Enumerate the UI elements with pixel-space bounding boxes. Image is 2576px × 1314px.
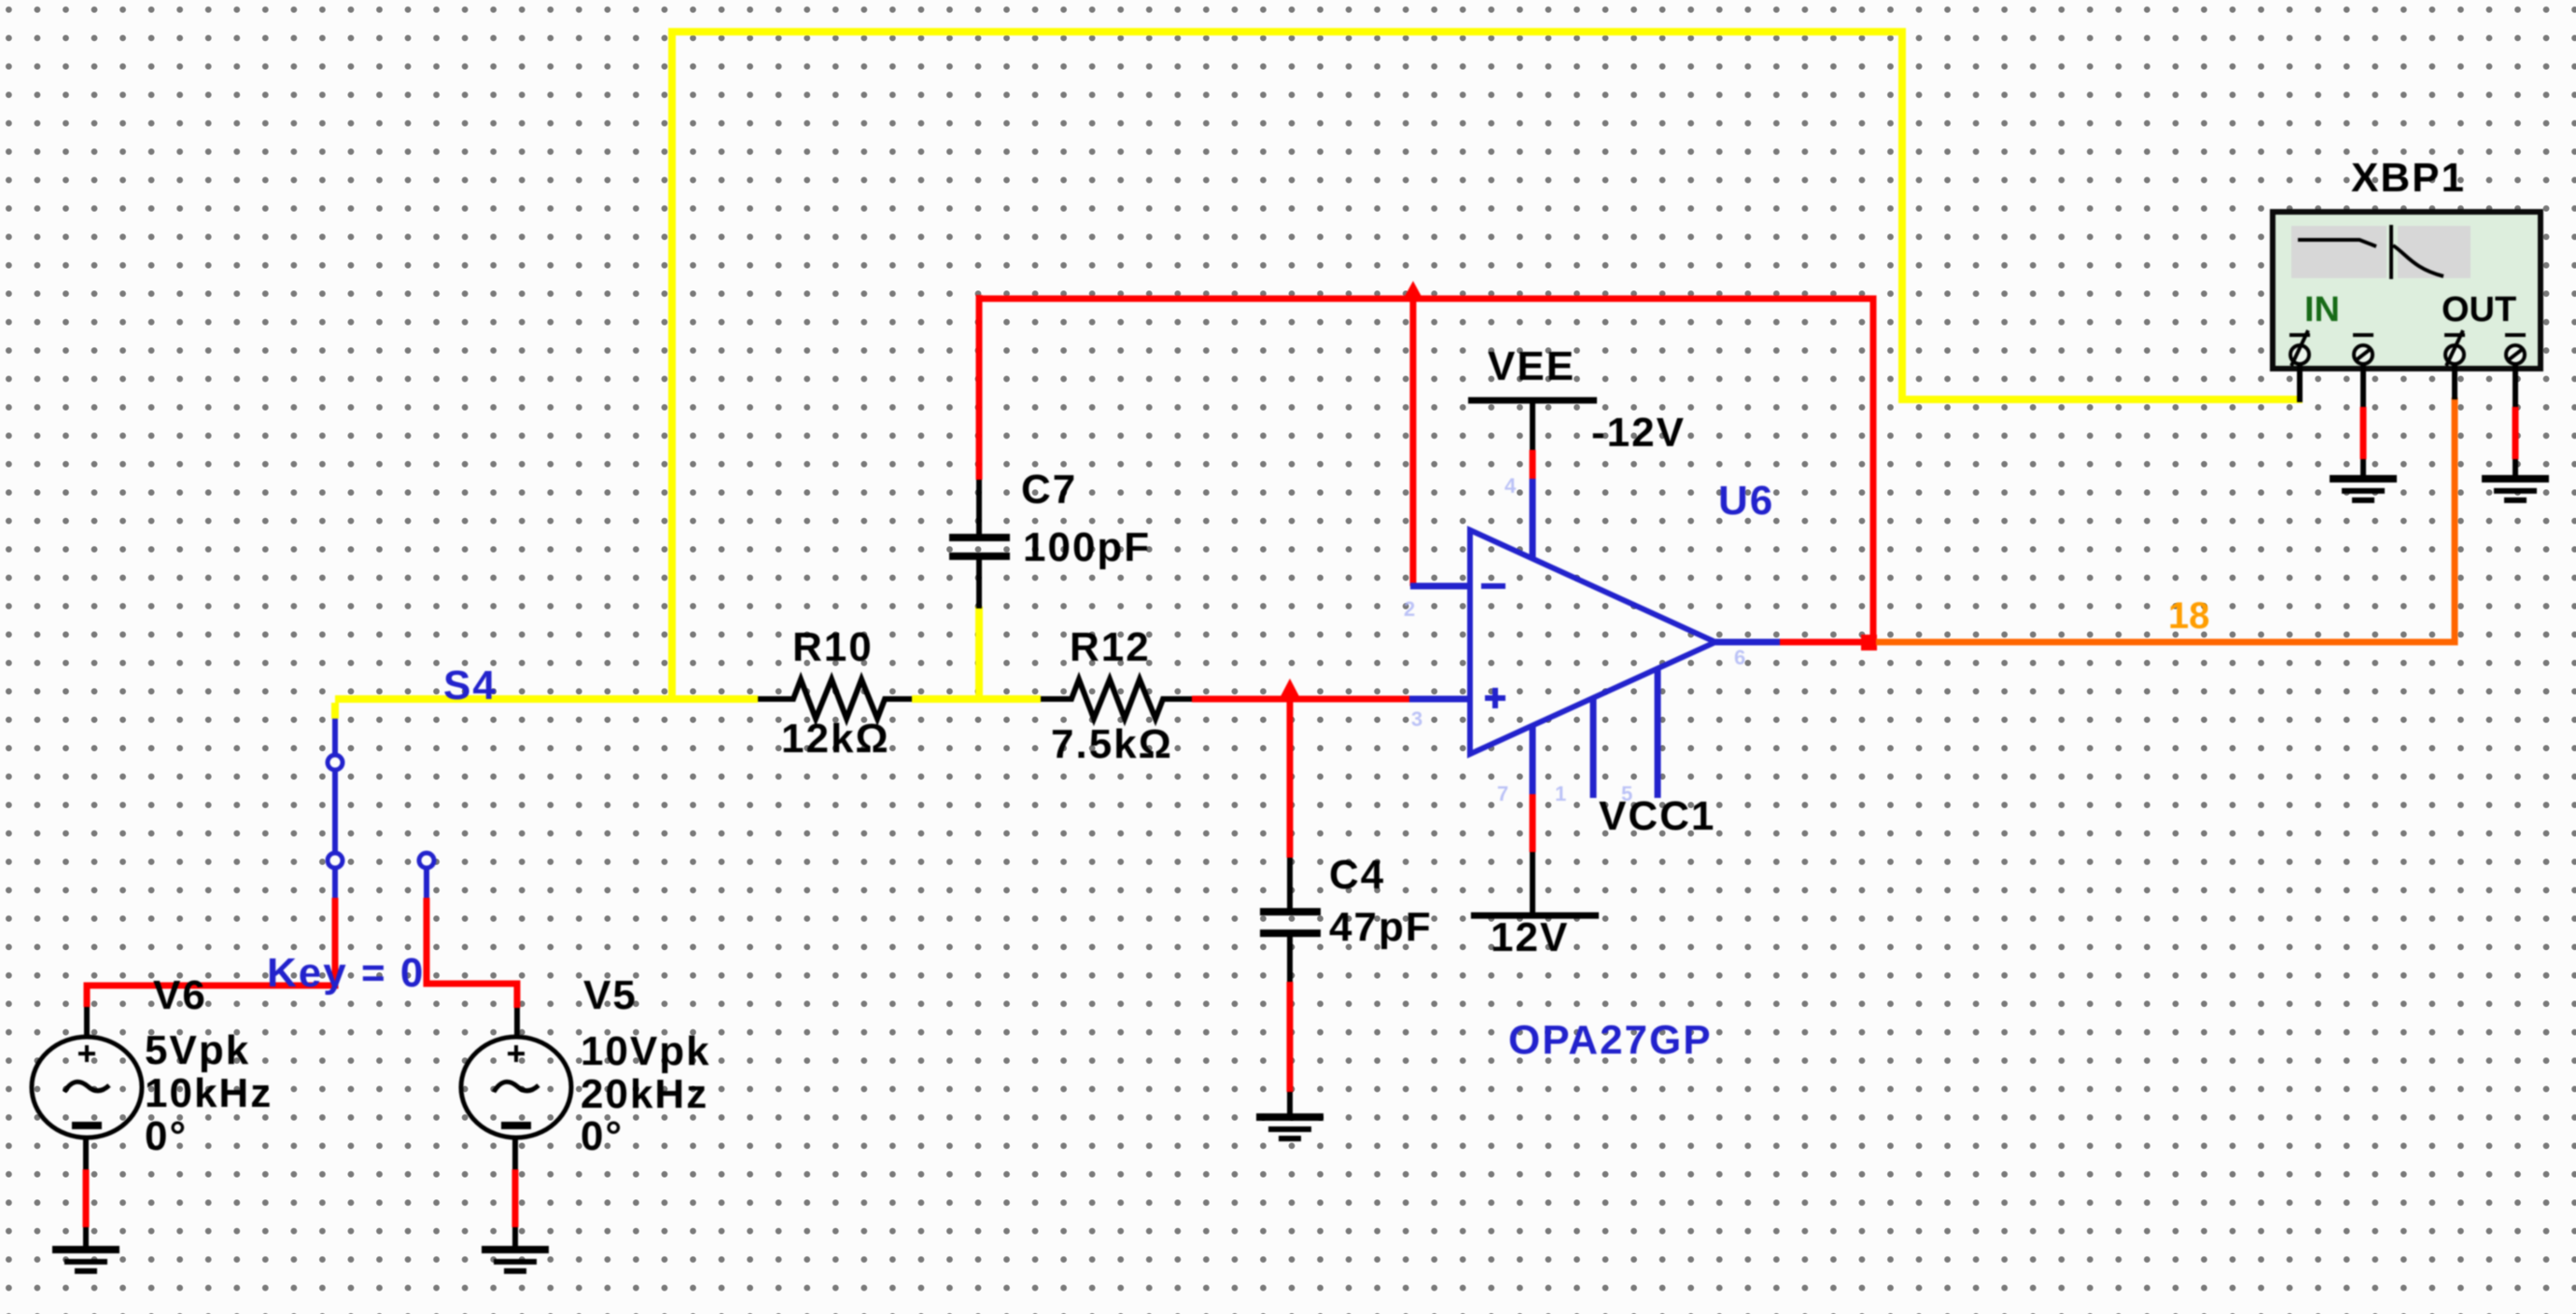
svg-text:20kHz: 20kHz bbox=[581, 1071, 708, 1117]
wire red IN- ground lead bbox=[2360, 407, 2367, 459]
VCC rail bar bbox=[1471, 913, 1599, 919]
wire black IN- stub bbox=[2360, 363, 2366, 407]
Bode plotter screen right bbox=[2398, 226, 2471, 278]
svg-text:OUT: OUT bbox=[2442, 290, 2516, 329]
wire black V6 top lead bbox=[84, 1007, 90, 1039]
wire yellow C7 bottom drop bbox=[975, 607, 983, 702]
wire yellow between R10 and R12 bbox=[912, 695, 1041, 703]
switch S4 throw contact A bbox=[328, 853, 343, 868]
source V6 sine wave bbox=[64, 1082, 109, 1092]
wire red throw A to V6 net bbox=[87, 898, 335, 1007]
switch S4 pole blue bbox=[332, 719, 338, 755]
op-amp VEE pin black bbox=[1530, 400, 1535, 450]
svg-text:R12: R12 bbox=[1070, 624, 1151, 670]
ground below C4 bbox=[1256, 1113, 1323, 1141]
svg-text:VEE: VEE bbox=[1488, 343, 1575, 389]
wire black IN+ stub bbox=[2297, 363, 2303, 402]
svg-text:C7: C7 bbox=[1021, 467, 1077, 512]
source V5 sine wave bbox=[494, 1082, 539, 1092]
Bode plotter icon curve bbox=[2298, 225, 2443, 279]
svg-text:3: 3 bbox=[1411, 707, 1422, 731]
wire blue below throw B bbox=[424, 868, 429, 898]
resistor R12 bbox=[1041, 679, 1192, 719]
ground below IN- bbox=[2330, 475, 2397, 503]
switch S4 blade bbox=[332, 770, 338, 853]
wire black V5 top lead bbox=[514, 1008, 520, 1039]
svg-text:VCC1: VCC1 bbox=[1599, 793, 1715, 839]
wire yellow branch up and across top to Bode plotter IN bbox=[672, 32, 2303, 699]
svg-text:C4: C4 bbox=[1329, 852, 1385, 898]
wire black to C4 ground bbox=[1287, 1092, 1293, 1116]
op-amp VCC pin black bbox=[1530, 852, 1535, 916]
wire black V5 bottom lead bbox=[512, 1139, 518, 1169]
junction arrow at top feedback bbox=[1402, 281, 1424, 301]
svg-text:U6: U6 bbox=[1718, 478, 1774, 524]
Bode plotter XBP1 body bbox=[2273, 212, 2541, 369]
XBP1 terminal IN+ bbox=[2289, 330, 2310, 366]
switch S4 pole contact bbox=[328, 755, 343, 770]
svg-text:2: 2 bbox=[1404, 597, 1415, 621]
wire yellow main segment S4 to R10 bbox=[335, 695, 758, 703]
svg-text:5Vpk: 5Vpk bbox=[145, 1027, 250, 1073]
source V6 minus bar bbox=[72, 1122, 102, 1129]
resistor R10 bbox=[758, 679, 912, 719]
wire red V5 to ground bbox=[512, 1169, 519, 1227]
svg-text:12kΩ: 12kΩ bbox=[781, 716, 890, 762]
junction square at output node bbox=[1861, 635, 1877, 650]
wire black IN- ground lead2 bbox=[2360, 459, 2366, 477]
op-amp VEE pin red bbox=[1530, 450, 1536, 479]
svg-text:S4: S4 bbox=[443, 663, 497, 708]
ground below V5 bbox=[482, 1246, 549, 1274]
svg-text:0°: 0° bbox=[145, 1113, 188, 1159]
svg-text:7.5kΩ: 7.5kΩ bbox=[1051, 721, 1173, 767]
XBP1 terminal IN- bbox=[2353, 335, 2373, 364]
wire red feedback top loop bbox=[979, 299, 1873, 642]
svg-text:6: 6 bbox=[1734, 646, 1745, 669]
svg-text:47pF: 47pF bbox=[1329, 904, 1433, 950]
wire red OUT- ground lead bbox=[2513, 407, 2519, 459]
XBP1 terminal OUT+ bbox=[2444, 330, 2465, 366]
switch S4 pole yellow bbox=[331, 703, 339, 719]
switch S4 throw contact B bbox=[419, 853, 434, 868]
svg-text:1: 1 bbox=[1555, 782, 1566, 805]
wire black OUT+ stub bbox=[2452, 363, 2457, 399]
source V5 minus bar bbox=[501, 1122, 531, 1129]
wire black OUT- ground lead2 bbox=[2513, 459, 2518, 477]
wire red throw B to V5 net bbox=[427, 898, 517, 1008]
op-amp offset null stub 1 bbox=[1590, 698, 1597, 798]
svg-text:12V: 12V bbox=[1491, 915, 1569, 960]
wire blue op-amp output stub bbox=[1715, 639, 1780, 646]
capacitor C4 bbox=[1260, 858, 1321, 982]
wire red below C4 bbox=[1287, 982, 1294, 1092]
wire black OUT- stub bbox=[2513, 363, 2518, 407]
source V5 plus sign bbox=[508, 1045, 525, 1062]
source V5 circle bbox=[461, 1037, 571, 1138]
Bode plotter screen left bbox=[2291, 226, 2387, 278]
wire orange output net 18 bbox=[1876, 398, 2455, 642]
ground below V6 bbox=[52, 1246, 119, 1274]
svg-text:18: 18 bbox=[2168, 595, 2210, 636]
svg-text:0°: 0° bbox=[581, 1113, 623, 1159]
wire red output to junction bbox=[1780, 639, 1870, 646]
wire red R12 to op-amp bbox=[1192, 696, 1412, 703]
svg-text:100pF: 100pF bbox=[1023, 524, 1151, 570]
svg-text:-12V: -12V bbox=[1591, 410, 1686, 455]
svg-text:7: 7 bbox=[1497, 782, 1508, 805]
wire blue below throw A bbox=[332, 868, 338, 898]
wire blue inverting input bbox=[1410, 583, 1472, 590]
source V6 circle bbox=[32, 1037, 142, 1138]
wire red vertical to inverting input bbox=[1410, 299, 1417, 586]
op-amp VCC pin blue bbox=[1530, 725, 1536, 794]
op-amp U6 triangle bbox=[1470, 530, 1715, 754]
wire black V6 bottom lead bbox=[83, 1139, 89, 1169]
svg-text:XBP1: XBP1 bbox=[2351, 155, 2466, 201]
source V6 plus sign bbox=[78, 1045, 95, 1062]
XBP1 terminal OUT- bbox=[2505, 335, 2526, 364]
ground below OUT- bbox=[2482, 475, 2549, 503]
wire red V6 to ground bbox=[83, 1169, 90, 1227]
wire red down to C4 bbox=[1287, 699, 1294, 858]
wire black V5 ground lead bbox=[512, 1227, 518, 1248]
VEE rail bar bbox=[1468, 398, 1597, 404]
capacitor C7 bbox=[949, 480, 1010, 608]
svg-text:IN: IN bbox=[2304, 290, 2340, 329]
wire red C7 top lead bbox=[976, 295, 983, 480]
op-amp offset null stub 2 bbox=[1655, 668, 1661, 798]
op-amp plus sign bbox=[1485, 688, 1505, 708]
junction arrow at C4 node bbox=[1279, 678, 1301, 700]
svg-text:10kHz: 10kHz bbox=[145, 1070, 273, 1116]
svg-text:5: 5 bbox=[1621, 782, 1632, 805]
wire blue non-inverting input bbox=[1409, 696, 1472, 703]
op-amp VCC pin red bbox=[1530, 794, 1536, 852]
svg-text:10Vpk: 10Vpk bbox=[581, 1028, 711, 1074]
svg-text:Key = 0: Key = 0 bbox=[267, 950, 425, 996]
svg-text:V6: V6 bbox=[153, 972, 207, 1018]
svg-text:V5: V5 bbox=[583, 972, 637, 1018]
svg-text:4: 4 bbox=[1505, 474, 1517, 497]
svg-text:R10: R10 bbox=[792, 624, 874, 670]
svg-text:OPA27GP: OPA27GP bbox=[1508, 1017, 1713, 1063]
op-amp minus sign bbox=[1481, 583, 1505, 589]
wire black V6 ground lead bbox=[83, 1227, 89, 1248]
op-amp VEE pin blue bbox=[1530, 479, 1536, 558]
